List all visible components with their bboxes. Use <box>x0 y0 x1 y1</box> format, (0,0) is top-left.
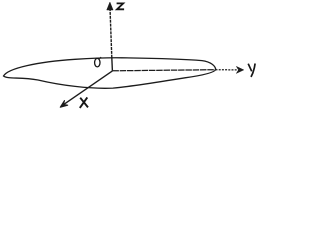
disc (ellipse in x-y plane) <box>4 58 216 89</box>
node O origin label <box>95 58 100 67</box>
node z label <box>117 3 125 9</box>
z-axis arrowhead <box>107 2 113 10</box>
wire y-axis inside disc <box>112 70 215 71</box>
y-axis arrowhead <box>236 66 244 73</box>
node y label <box>248 64 255 77</box>
wire x-axis shaft <box>63 71 113 105</box>
node x label <box>80 97 88 108</box>
wire y-axis outside disc <box>216 69 238 71</box>
x-axis arrowhead <box>60 101 67 108</box>
wire z-axis lower solid segment <box>111 58 114 71</box>
node O tail <box>99 57 101 58</box>
wire z-axis shaft <box>110 8 112 58</box>
